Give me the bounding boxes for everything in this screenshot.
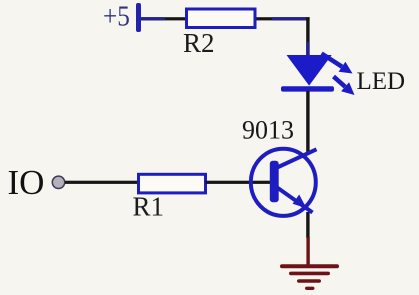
svg-text:+5: +5 — [103, 0, 130, 32]
svg-text:R1: R1 — [133, 192, 165, 222]
svg-text:IO: IO — [8, 163, 45, 202]
svg-text:R2: R2 — [183, 28, 215, 58]
svg-text:LED: LED — [357, 68, 406, 95]
svg-text:9013: 9013 — [242, 116, 294, 145]
